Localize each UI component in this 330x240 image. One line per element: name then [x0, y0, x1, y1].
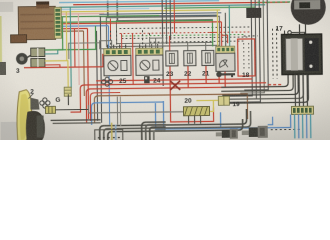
vertical grey pair x118: [116, 1, 118, 21]
blue wire U: [163, 100, 220, 128]
vertical dark x167: [165, 0, 168, 44]
black bundle y119: [51, 119, 101, 122]
gauge 25 strip: [104, 48, 131, 55]
horn wire green2: [57, 26, 95, 50]
coil curve lead1: [221, 74, 288, 87]
red bus y79: [96, 79, 252, 81]
dashed vertical x277: [276, 29, 279, 79]
wire red drop x88: [87, 28, 88, 118]
HT bundle line4: [111, 123, 113, 141]
horn link: [27, 55, 32, 58]
vertical red x175: [173, 0, 175, 33]
spark plug 2: [242, 126, 268, 138]
grey vertical x120 low: [119, 97, 121, 127]
pink drop: [77, 14, 80, 85]
red outline box near switch: [238, 39, 255, 76]
HT group B x145: [146, 124, 166, 140]
headlight inner shade: [19, 94, 29, 140]
lamp feed x170: [169, 36, 171, 51]
gauge feed dash x117: [116, 31, 118, 49]
horn wire red down: [73, 29, 75, 67]
gauge 24 strip: [136, 48, 163, 55]
vertical grey pair x108: [107, 1, 109, 18]
wire red top: [73, 2, 289, 5]
horn connector stack 1: [31, 48, 45, 57]
block 20 hatched: [183, 106, 209, 115]
black bundle y122: [53, 122, 101, 125]
fuel pump icon: [144, 76, 150, 83]
headlight dark housing: [26, 111, 45, 142]
dashed wire row 3: [122, 37, 248, 39]
rear teal wire 4: [306, 114, 308, 138]
wire red mid1: [59, 22, 221, 24]
red lamp drop x188: [187, 66, 189, 88]
coil lead down 2: [298, 74, 300, 106]
key icon 18: [216, 71, 235, 77]
distributor inner rect: [294, 0, 320, 9]
gauge feed dash x143: [142, 30, 144, 48]
horn wire green: [44, 17, 62, 50]
fuse box top tab: [36, 1, 49, 8]
ignition switch strip: [216, 46, 235, 53]
dashed dist line: [246, 102, 285, 104]
strip stubs 25: [108, 44, 126, 48]
coil curve lead2: [221, 74, 293, 91]
gauge feed dash x110: [110, 31, 112, 49]
vertical bundle right x256: [217, 0, 256, 99]
lamp feed x206: [205, 42, 207, 51]
dashed key line17: [244, 35, 258, 37]
dashed bottom line: [271, 128, 301, 130]
coil lead down 3: [302, 74, 304, 106]
fuse box body: [18, 6, 55, 39]
coil terminal dot 1: [309, 41, 312, 44]
horn wire yellow: [44, 12, 67, 61]
wire blue mid: [59, 25, 108, 28]
ignition coil core: [286, 38, 303, 70]
green dashed horn wire: [257, 1, 293, 3]
headlight housing hi: [37, 115, 44, 137]
switch feed teal x230: [228, 5, 231, 46]
ignition coil core shade: [291, 38, 298, 70]
small black component top right: [246, 8, 261, 18]
rear connector yellow: [291, 106, 313, 114]
vertical bundle right x260: [219, 0, 260, 102]
fuse box top tab band: [36, 1, 49, 4]
vertical bundle right x252: [217, 0, 252, 96]
lamp 22 box: [184, 51, 196, 66]
coil lead down 1: [294, 74, 296, 106]
coil lead down 4: [306, 74, 308, 106]
red lamp drop x206: [205, 65, 207, 83]
distributor cap box: [95, 130, 123, 141]
conn wire right: [55, 108, 88, 110]
wire green upper: [59, 16, 159, 17]
horn wire red stub: [45, 65, 60, 68]
strip stubs 24: [140, 44, 158, 48]
wire blue drop x109: [108, 26, 109, 125]
rear teal wire 3: [302, 114, 304, 138]
red bus y88: [86, 87, 268, 123]
conn wire upper drop: [67, 94, 69, 105]
circle lead 2: [304, 24, 306, 34]
label2 leader: [28, 94, 33, 99]
wire navy 1: [99, 13, 221, 14]
headlight yellow body: [17, 90, 32, 142]
circle lead 1: [298, 24, 300, 34]
wire teal dark: [59, 5, 265, 8]
coil terminal dot 2: [309, 65, 312, 68]
dashboard outline box inner: [116, 19, 212, 43]
HT bundle line3: [108, 119, 243, 141]
dashboard outline box outer: [106, 16, 219, 46]
blue to plug: [268, 117, 273, 125]
block20 stub 1: [188, 116, 190, 124]
red switch drop x219: [218, 53, 220, 83]
wire dark drop x97: [97, 31, 98, 121]
red bus y84: [70, 83, 266, 112]
red elbow x228: [222, 35, 228, 43]
left edge yellow streak: [0, 16, 2, 64]
headlight bracket: [30, 98, 39, 110]
HT bundle line5: [115, 125, 117, 141]
wire brown mid: [60, 30, 84, 32]
wire navy 2: [99, 15, 217, 16]
wire yellow: [59, 10, 220, 12]
red bus y92: [90, 93, 120, 121]
red horn bus: [24, 54, 103, 68]
small box outline B: [150, 38, 163, 46]
ignition coil dark side: [305, 38, 319, 71]
grey pi wire: [69, 43, 100, 59]
wire dark drop x101: [100, 16, 101, 122]
blue long bottom: [155, 101, 290, 129]
plug symbol 17: [285, 30, 305, 36]
headlight striped conn: [45, 106, 55, 113]
switch feed grey x226: [224, 13, 226, 46]
HT bundle line1: [99, 109, 246, 141]
top-left corner shade: [0, 2, 13, 12]
fuse box bottom tab: [11, 35, 27, 43]
gauge feed red x122: [121, 34, 123, 49]
dashed wire row 4: [150, 41, 246, 42]
fuse box terminal strip: [54, 7, 61, 38]
coil curve lead3: [222, 74, 298, 95]
gauge feed grey x156: [155, 38, 157, 48]
HT group B x149: [150, 127, 166, 140]
wire lightblue: [59, 8, 149, 9]
lamp 23 box: [166, 51, 178, 66]
flower icon: [40, 98, 50, 108]
wire green mid: [59, 20, 212, 48]
red frame dots: [243, 43, 245, 71]
vertical dark x163: [162, 0, 163, 86]
red switch drop x225: [224, 53, 226, 87]
lamp feed x188: [187, 42, 189, 51]
paper background: [0, 0, 330, 140]
horn circle core: [20, 56, 25, 61]
ignition switch box: [216, 53, 235, 71]
fan icon: [102, 77, 113, 86]
wire red mid2: [59, 27, 87, 29]
coil curve lead5: [226, 74, 308, 103]
vertical dark x171: [169, 0, 171, 40]
wire cyan from fusebox: [59, 1, 219, 3]
vertical bundle right x264: [239, 0, 264, 93]
HT group B x153: [154, 130, 166, 140]
switch feed red x222: [220, 22, 222, 46]
red dash to coil: [268, 84, 282, 86]
spark plug 1: [216, 129, 238, 139]
blue bus y101: [91, 102, 163, 125]
small box outline A: [100, 41, 112, 49]
horn wire teal down: [69, 7, 72, 88]
yellow wire to conn19: [196, 99, 218, 101]
wire green right y8: [164, 7, 255, 8]
coil curve lead4: [224, 74, 303, 99]
rear teal wire 1: [294, 114, 296, 138]
grey vertical x117 low: [116, 97, 118, 125]
junction X: [170, 81, 180, 90]
yellow wire block20: [205, 100, 213, 111]
horn connector stack 2: [31, 58, 45, 67]
block20 stub 3: [200, 116, 202, 124]
horn dark circle: [16, 53, 28, 65]
distributor inner dark: [299, 2, 310, 8]
HT group B x141: [142, 122, 166, 140]
red lamp drop x170: [170, 65, 214, 122]
distributor dark circle: [291, 0, 326, 25]
ignition coil outer: [282, 34, 322, 74]
grey shield wire: [88, 104, 183, 113]
gauge 24 box: [136, 55, 163, 75]
dashed wire row 1: [119, 27, 249, 29]
yellow drop to conn: [67, 60, 69, 88]
red elbow x218: [210, 32, 218, 41]
horn wire teal stub: [45, 50, 58, 54]
connector 19: [218, 96, 229, 105]
red vertical x111: [109, 19, 111, 41]
bottom-left shadow corner: [1, 122, 28, 142]
lamp 21 box: [202, 50, 214, 65]
gauge feed dash x150: [149, 33, 151, 48]
brown bus y93: [94, 94, 247, 123]
paper grain overlay: [0, 0, 330, 140]
dashed wire row 2: [120, 32, 252, 34]
dashed wire green row: [122, 35, 246, 37]
HT bundle line2: [104, 111, 251, 141]
wire pink: [59, 13, 104, 16]
rear teal wire 5: [310, 114, 312, 138]
distributor cap dots: [98, 137, 120, 139]
brown drop x84: [83, 31, 86, 96]
rear teal wire 2: [298, 114, 300, 138]
red vertical x133: [132, 33, 135, 84]
dashed vertical x273: [272, 29, 275, 79]
vertical bundle right x268: [243, 0, 268, 90]
gauge 25 box: [104, 55, 131, 75]
switch feed yellow x218: [216, 10, 218, 46]
left edge dark stub: [0, 62, 6, 75]
block20 stub 2: [194, 116, 196, 124]
headlight conn upper: [64, 87, 71, 96]
